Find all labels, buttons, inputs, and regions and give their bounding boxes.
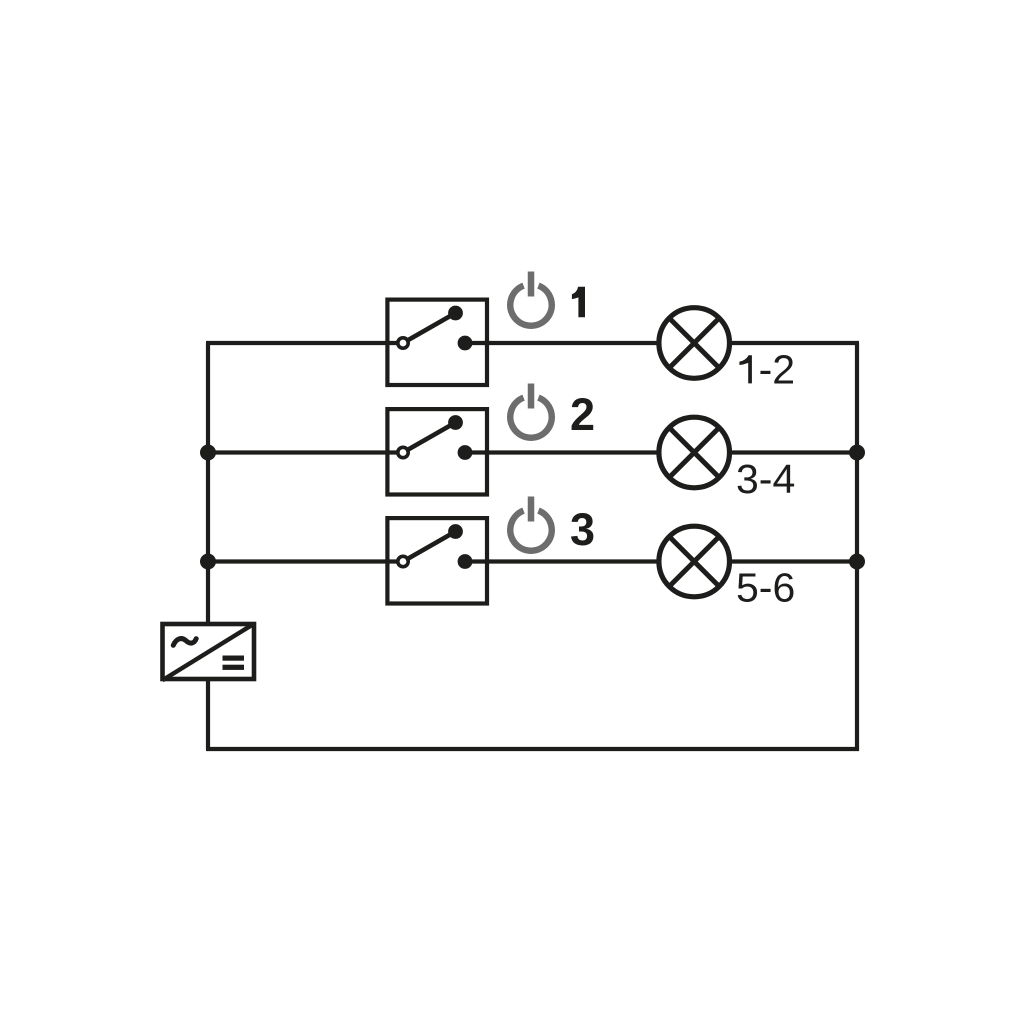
switch S2 [387, 409, 487, 494]
wire: left vertical bus (PSU to bottom corner) [206, 681, 210, 749]
lamp E3 [659, 526, 730, 597]
label lamp 1-2 [739, 355, 752, 383]
lamp E2 [659, 417, 730, 488]
node: junction left bus row 2 [200, 445, 216, 461]
wire: row 3 lamp to right bus segment [731, 559, 857, 563]
svg-text:3: 3 [570, 504, 595, 555]
power supply AC/DC converter [162, 624, 254, 681]
wire: bottom horizontal return [206, 747, 859, 751]
label AC tilde [173, 639, 196, 646]
switch S3 [387, 518, 487, 603]
wire: row 1 left segment [206, 341, 403, 345]
wire: row 2 lamp to right bus segment [731, 450, 857, 454]
wire: right vertical bus [855, 343, 859, 751]
lamp E1 [659, 308, 730, 379]
wire: row 3 switch to lamp segment [465, 559, 658, 563]
svg-text:5-6: 5-6 [736, 565, 795, 611]
wire: row 2 left segment [208, 450, 403, 454]
node: junction right bus row 3 [849, 554, 865, 570]
wire: left vertical bus (top section) [206, 343, 210, 622]
label DC bars [223, 656, 245, 661]
svg-text:2: 2 [570, 389, 595, 440]
svg-text:-2: -2 [759, 346, 795, 392]
label switch number 1 [572, 287, 585, 317]
svg-text:3-4: 3-4 [736, 456, 795, 502]
node: junction left bus row 3 [200, 554, 216, 570]
wire: row 1 switch to lamp segment [465, 341, 658, 345]
wire: row 3 left segment [208, 559, 403, 563]
power icon 1 [510, 272, 551, 326]
wire: row 1 lamp to right bus segment [731, 341, 859, 345]
switch S1 [387, 300, 487, 385]
power icon 3 [510, 497, 552, 551]
wire: row 2 switch to lamp segment [465, 450, 658, 454]
power icon 2 [510, 384, 552, 438]
node: junction right bus row 2 [849, 445, 865, 461]
